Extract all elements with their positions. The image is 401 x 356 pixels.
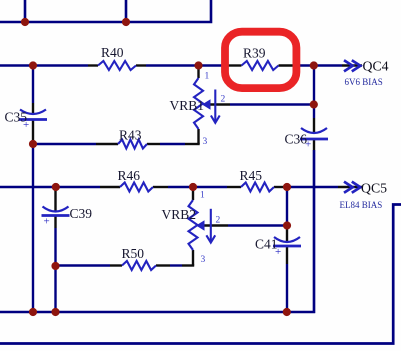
svg-text:3: 3 (203, 137, 208, 147)
svg-text:R50: R50 (122, 246, 145, 261)
svg-text:+: + (23, 119, 29, 131)
svg-text:EL84 BIAS: EL84 BIAS (340, 200, 383, 210)
svg-text:+: + (275, 246, 281, 258)
svg-text:QC5: QC5 (361, 180, 387, 195)
svg-text:R45: R45 (240, 168, 263, 183)
svg-text:+: + (44, 216, 50, 228)
svg-text:1: 1 (205, 72, 210, 82)
svg-text:QC4: QC4 (363, 59, 389, 74)
svg-text:R40: R40 (101, 45, 124, 60)
svg-text:C39: C39 (70, 206, 93, 221)
svg-text:2: 2 (221, 95, 226, 105)
svg-text:1: 1 (200, 191, 205, 201)
svg-text:VRB2: VRB2 (162, 207, 197, 222)
svg-text:VRB1: VRB1 (170, 98, 205, 113)
svg-text:2: 2 (216, 215, 221, 225)
svg-text:R39: R39 (243, 46, 266, 61)
svg-text:R43: R43 (119, 128, 142, 143)
svg-text:3: 3 (201, 255, 206, 265)
svg-text:R46: R46 (118, 168, 141, 183)
svg-text:C36: C36 (285, 132, 308, 147)
svg-text:+: + (305, 139, 311, 151)
svg-text:6V6 BIAS: 6V6 BIAS (345, 77, 383, 87)
